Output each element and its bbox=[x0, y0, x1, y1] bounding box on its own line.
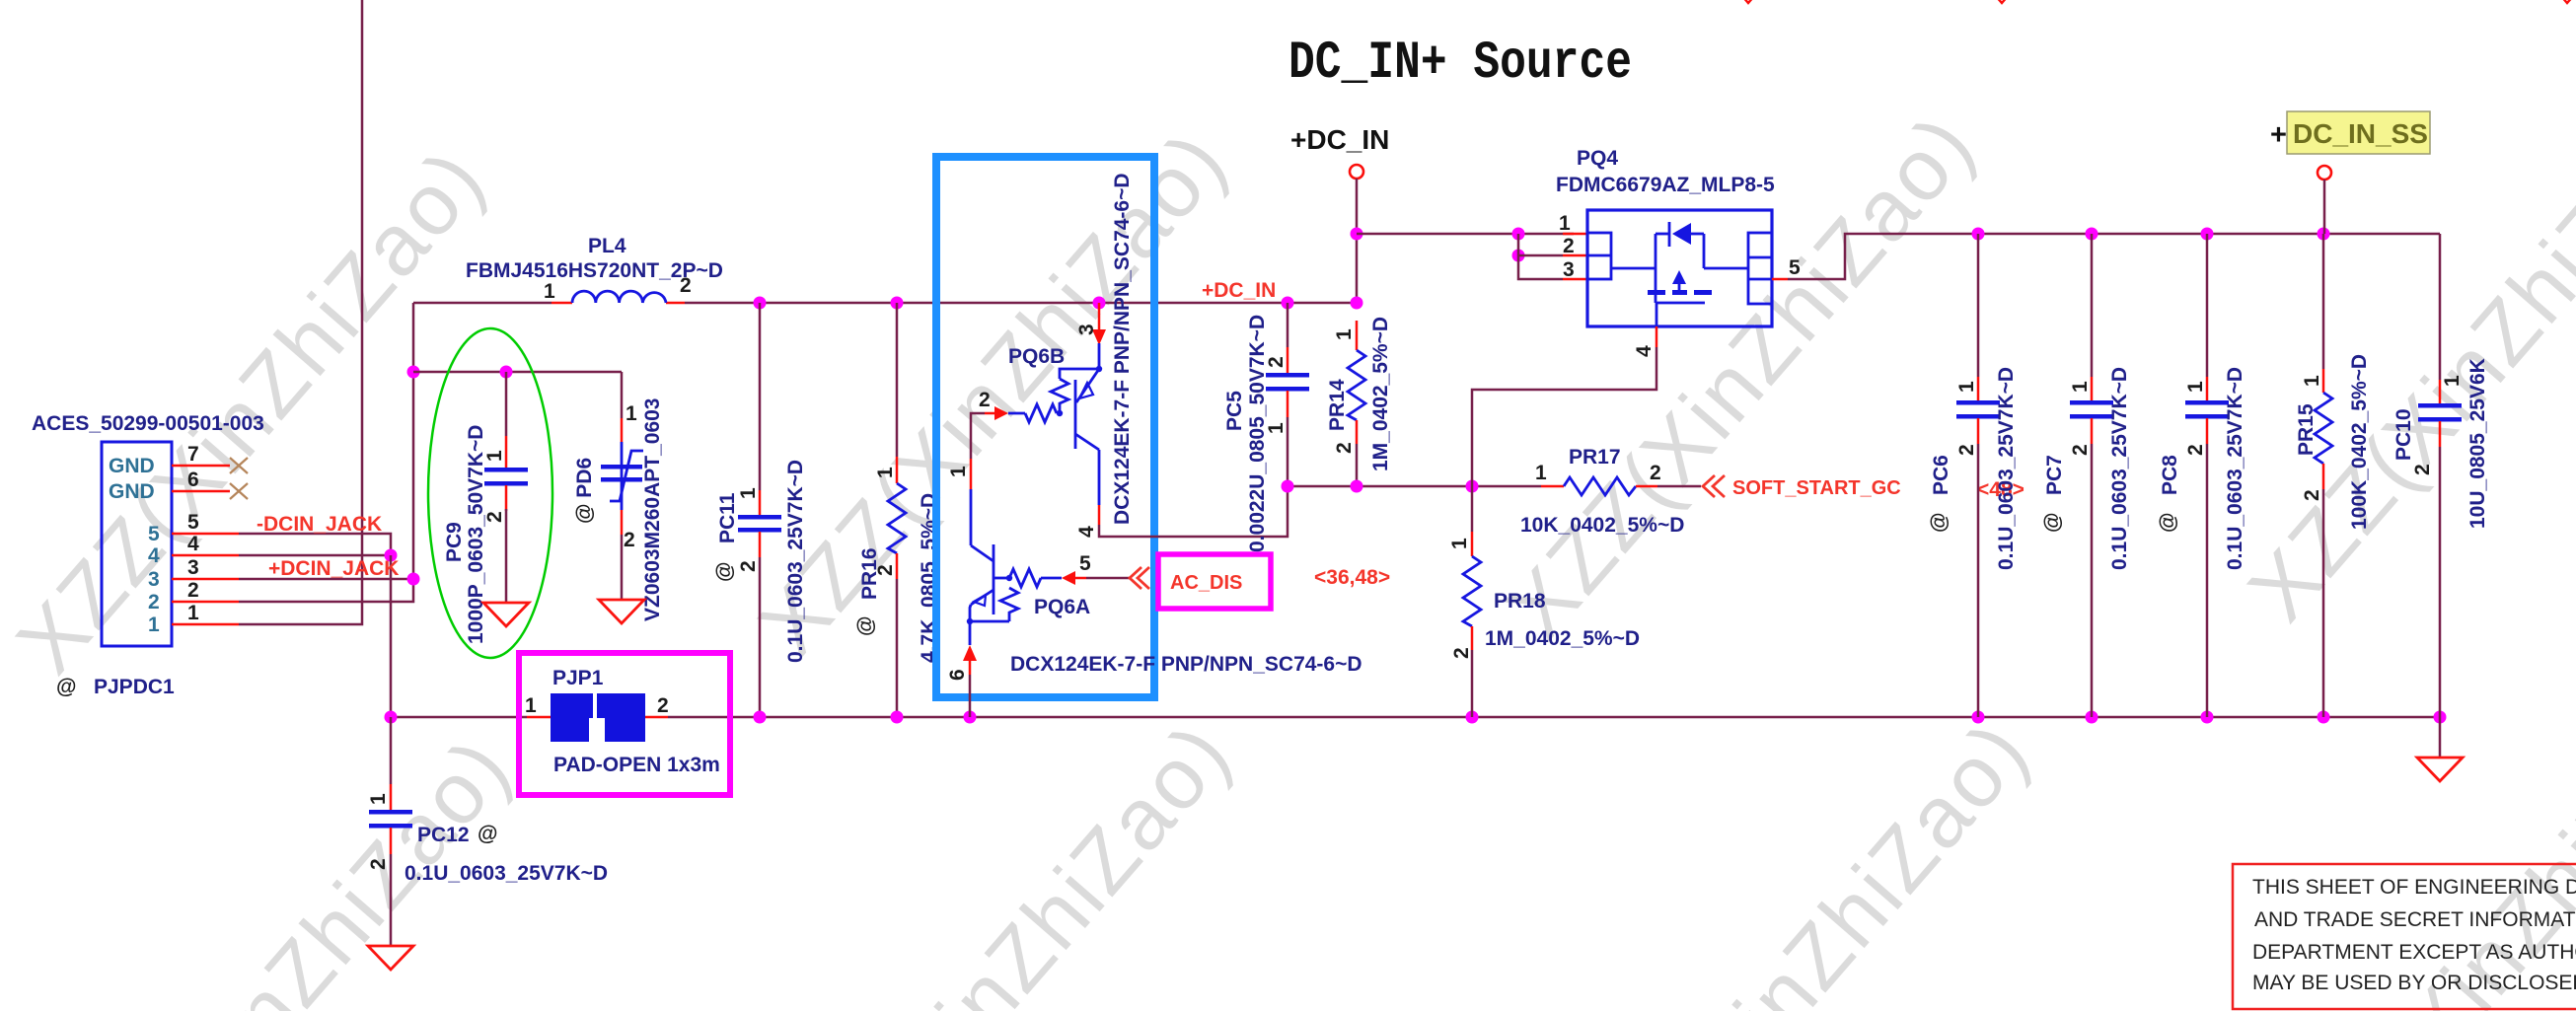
capacitor PC9 bbox=[443, 372, 528, 644]
node bottom rail junctions bbox=[385, 711, 2447, 724]
svg-text:2: 2 bbox=[624, 529, 635, 551]
svg-text:@: @ bbox=[854, 616, 877, 636]
svg-text:2: 2 bbox=[367, 858, 390, 870]
jumper PJP1 bbox=[525, 667, 720, 776]
highlight box magenta AC_DIS bbox=[1158, 554, 1271, 609]
svg-text:2: 2 bbox=[148, 591, 160, 614]
svg-text:ACES_50299-00501-003: ACES_50299-00501-003 bbox=[32, 412, 264, 435]
off-page diamond marker 1 bbox=[1741, 0, 1755, 3]
wire PQ6B pin4 to PC5 bottom bbox=[1099, 486, 1288, 537]
svg-text:2: 2 bbox=[187, 579, 199, 602]
node gate row junctions bbox=[1282, 480, 1479, 493]
pin 7 bbox=[172, 443, 230, 466]
svg-text:0.0022U_0805_50V7K~D: 0.0022U_0805_50V7K~D bbox=[1246, 315, 1269, 552]
svg-text:1: 1 bbox=[947, 466, 970, 477]
resistor PR14 bbox=[1326, 317, 1392, 486]
svg-text:PR14: PR14 bbox=[1326, 379, 1349, 431]
transistor PQ4 bbox=[1556, 147, 1801, 357]
svg-text:1: 1 bbox=[626, 402, 637, 425]
svg-text:4: 4 bbox=[187, 533, 199, 555]
svg-text:@: @ bbox=[2157, 513, 2179, 533]
svg-text:1: 1 bbox=[2441, 375, 2464, 387]
node PR15 top junction bbox=[2318, 228, 2330, 241]
svg-text:100K_0402_5%~D: 100K_0402_5%~D bbox=[2348, 354, 2371, 530]
net label +DC_IN small bbox=[1202, 279, 1276, 302]
svg-text:PR17: PR17 bbox=[1569, 446, 1621, 469]
terminal +DC_IN_SS bbox=[2270, 111, 2430, 234]
svg-text:AC_DIS: AC_DIS bbox=[1170, 572, 1242, 594]
node PL4 left branch junction bbox=[407, 366, 420, 379]
svg-text:GND: GND bbox=[109, 455, 155, 477]
svg-text:PC6: PC6 bbox=[1930, 455, 1952, 495]
wire PQ4 pin4 to gate row bbox=[1472, 347, 1656, 486]
svg-text:+DC_IN: +DC_IN bbox=[1202, 279, 1276, 302]
svg-text:PC10: PC10 bbox=[2392, 408, 2415, 461]
svg-text:6: 6 bbox=[946, 669, 969, 681]
node PQ6B pin3 junction bbox=[1093, 297, 1106, 310]
page ref 36,48 bbox=[1314, 566, 1390, 589]
svg-text:3: 3 bbox=[148, 568, 160, 591]
node +DCIN_JACK junction bbox=[407, 573, 420, 586]
wire top +DC_IN horizontal bbox=[413, 302, 1357, 305]
svg-text:AND TRADE SECRET INFORMATION A: AND TRADE SECRET INFORMATION AND bbox=[2254, 908, 2576, 931]
svg-text:XZZ(XinZhiZao): XZZ(XinZhiZao) bbox=[0, 129, 503, 690]
transistor PQ6B bbox=[947, 303, 1106, 545]
node PQ4 pin1/pin2 junctions bbox=[1512, 228, 1525, 262]
wire pin4 to junction bbox=[239, 554, 391, 557]
title DC_IN+ Source bbox=[1288, 34, 1632, 94]
svg-text:3: 3 bbox=[1563, 258, 1575, 281]
node PC5 top junction bbox=[1282, 297, 1294, 310]
node PR14 top junction bbox=[1351, 297, 1363, 310]
svg-text:2: 2 bbox=[2069, 444, 2092, 456]
wire -DCIN vertical to bottom rail bbox=[390, 555, 393, 717]
wire PC9/PD6 branch bbox=[413, 371, 622, 374]
svg-text:-DCIN_JACK: -DCIN_JACK bbox=[257, 513, 382, 536]
svg-text:0.1U_0603_25V7K~D: 0.1U_0603_25V7K~D bbox=[2224, 367, 2246, 570]
svg-text:FBMJ4516HS720NT_2P~D: FBMJ4516HS720NT_2P~D bbox=[466, 259, 723, 282]
svg-text:1: 1 bbox=[544, 280, 555, 303]
svg-text:@: @ bbox=[713, 562, 736, 582]
svg-text:5: 5 bbox=[148, 523, 160, 545]
svg-text:XZZ(XinZhiZao): XZZ(XinZhiZao) bbox=[1542, 701, 2048, 1011]
wire PQ6A pin6 to rail bbox=[969, 675, 972, 717]
svg-text:@: @ bbox=[56, 676, 76, 698]
port chevron AC_DIS bbox=[1130, 567, 1149, 589]
svg-text:2: 2 bbox=[979, 389, 991, 411]
node +DC_IN rail junction bbox=[1351, 228, 1363, 241]
svg-text:+: + bbox=[2270, 119, 2287, 151]
node PC11 top junction bbox=[754, 297, 767, 310]
net label -DCIN_JACK bbox=[257, 513, 382, 536]
pin 3 bbox=[172, 556, 239, 579]
bottom rail wire bbox=[391, 716, 2440, 719]
svg-text:2: 2 bbox=[2411, 464, 2434, 475]
svg-text:1: 1 bbox=[187, 602, 199, 624]
wire gate row y493 bbox=[1288, 485, 1541, 488]
label DCX124EK horizontal bbox=[1010, 653, 1362, 676]
capacitor PC5 bbox=[1223, 303, 1309, 552]
node PC8 top junction bbox=[2201, 228, 2214, 241]
svg-text:DC_IN_SS: DC_IN_SS bbox=[2293, 118, 2428, 149]
port chevron SOFT_START_GC bbox=[1703, 475, 1725, 497]
svg-text:5: 5 bbox=[1789, 256, 1801, 279]
pin 2 bbox=[172, 579, 239, 602]
svg-text:2: 2 bbox=[737, 560, 760, 572]
svg-text:1000P_0603_50V7K~D: 1000P_0603_50V7K~D bbox=[465, 425, 487, 644]
varistor PD6 bbox=[573, 372, 664, 621]
svg-text:1: 1 bbox=[1448, 538, 1471, 549]
svg-text:PC12: PC12 bbox=[417, 824, 470, 846]
svg-text:10U_0805_25V6K: 10U_0805_25V6K bbox=[2466, 358, 2489, 529]
svg-text:10K_0402_5%~D: 10K_0402_5%~D bbox=[1520, 514, 1684, 537]
resistor PR17 bbox=[1520, 446, 1701, 537]
svg-text:1: 1 bbox=[1535, 462, 1547, 484]
svg-text:PR18: PR18 bbox=[1494, 590, 1546, 613]
svg-text:6: 6 bbox=[187, 469, 199, 491]
net label +DCIN_JACK bbox=[268, 557, 399, 580]
svg-text:PJP1: PJP1 bbox=[552, 667, 604, 689]
svg-text:PQ6B: PQ6B bbox=[1008, 345, 1065, 368]
svg-text:THIS SHEET OF ENGINEERING DRAW: THIS SHEET OF ENGINEERING DRAWING CO bbox=[2252, 876, 2576, 899]
green ellipse highlight bbox=[428, 328, 552, 658]
svg-text:1: 1 bbox=[2184, 381, 2207, 393]
svg-text:PC7: PC7 bbox=[2043, 455, 2066, 495]
svg-text:1: 1 bbox=[148, 614, 160, 636]
wire -DCIN_JACK pin5 bbox=[239, 534, 391, 555]
engineering note box bbox=[2233, 864, 2576, 1009]
svg-text:4: 4 bbox=[1075, 526, 1098, 538]
off-page diamond marker 2 bbox=[1995, 0, 2009, 3]
svg-text:SOFT_START_GC: SOFT_START_GC bbox=[1732, 477, 1901, 499]
svg-text:PR16: PR16 bbox=[858, 547, 881, 600]
wire vertical from top to connector pin 1 bbox=[239, 0, 362, 624]
connector value label bbox=[32, 412, 264, 435]
svg-text:2: 2 bbox=[657, 694, 669, 717]
transistor PQ6A bbox=[946, 544, 1091, 681]
svg-text:1: 1 bbox=[367, 793, 390, 805]
svg-text:1: 1 bbox=[525, 694, 537, 717]
ground PC9 bbox=[483, 603, 529, 626]
svg-text:3: 3 bbox=[1075, 324, 1098, 335]
svg-text:FDMC6679AZ_MLP8-5: FDMC6679AZ_MLP8-5 bbox=[1556, 174, 1775, 196]
node PC9 top junction bbox=[500, 366, 513, 379]
wire +DC_IN rail to PQ4 bbox=[1357, 233, 1574, 236]
svg-text:1: 1 bbox=[2301, 375, 2323, 387]
svg-text:DCX124EK-7-F PNP/NPN_SC74-6~D: DCX124EK-7-F PNP/NPN_SC74-6~D bbox=[1010, 653, 1362, 676]
svg-text:DC_IN+ Source: DC_IN+ Source bbox=[1288, 34, 1632, 94]
svg-text:+DC_IN: +DC_IN bbox=[1290, 124, 1389, 155]
svg-text:3: 3 bbox=[187, 556, 199, 579]
svg-text:PQ4: PQ4 bbox=[1577, 147, 1618, 170]
svg-text:GND: GND bbox=[109, 480, 155, 503]
svg-text:XZZ(XinZhiZao): XZZ(XinZhiZao) bbox=[744, 703, 1250, 1011]
resistor PR16 bbox=[854, 303, 940, 717]
svg-text:4: 4 bbox=[1633, 345, 1656, 357]
svg-text:1M_0402_5%~D: 1M_0402_5%~D bbox=[1369, 317, 1392, 471]
node PC6 top junction bbox=[1972, 228, 1985, 241]
svg-text:1: 1 bbox=[737, 487, 760, 499]
connector refdes bbox=[56, 676, 175, 698]
svg-text:0.1U_0603_25V7K~D: 0.1U_0603_25V7K~D bbox=[784, 460, 807, 663]
capacitor PC11 bbox=[713, 303, 807, 717]
svg-text:PC9: PC9 bbox=[443, 522, 466, 562]
svg-text:2: 2 bbox=[2301, 489, 2323, 501]
svg-text:DCX124EK-7-F PNP/NPN_SC74-6~D: DCX124EK-7-F PNP/NPN_SC74-6~D bbox=[1111, 173, 1134, 525]
resistor PR15 bbox=[2295, 234, 2371, 717]
ground PC12 bbox=[368, 946, 413, 970]
svg-text:2: 2 bbox=[2184, 444, 2207, 456]
svg-text:PC11: PC11 bbox=[716, 492, 739, 543]
svg-text:1: 1 bbox=[874, 467, 897, 478]
svg-text:PAD-OPEN 1x3m: PAD-OPEN 1x3m bbox=[553, 754, 720, 776]
svg-text:5: 5 bbox=[1079, 552, 1091, 575]
node -DCIN_JACK junction bbox=[385, 549, 398, 562]
ground bottom right bbox=[2417, 717, 2463, 781]
svg-text:2: 2 bbox=[1450, 647, 1473, 659]
svg-text:PC5: PC5 bbox=[1223, 391, 1246, 431]
svg-text:PC8: PC8 bbox=[2159, 455, 2181, 495]
svg-text:PL4: PL4 bbox=[588, 235, 626, 257]
wire PQ4 pin bus bbox=[1518, 234, 1563, 279]
node PC7 top junction bbox=[2086, 228, 2098, 241]
off-page diamond marker 3 bbox=[2560, 0, 2574, 3]
svg-text:2: 2 bbox=[1650, 462, 1661, 484]
capacitor PC6 bbox=[1928, 234, 2018, 717]
svg-text:@: @ bbox=[1928, 513, 1950, 533]
capacitor PC12 bbox=[367, 717, 608, 946]
capacitor PC7 bbox=[2041, 234, 2131, 717]
capacitor PC10 bbox=[2392, 234, 2489, 717]
svg-text:1: 1 bbox=[2069, 381, 2092, 393]
pin 1 bbox=[172, 602, 239, 624]
svg-text:0.1U_0603_25V7K~D: 0.1U_0603_25V7K~D bbox=[1995, 367, 2018, 570]
svg-text:PJPDC1: PJPDC1 bbox=[94, 676, 175, 698]
svg-text:7: 7 bbox=[187, 443, 199, 466]
svg-text:2: 2 bbox=[1563, 235, 1575, 257]
pin 4 bbox=[172, 533, 239, 555]
svg-text:@: @ bbox=[2041, 513, 2064, 533]
connector PJPDC1 bbox=[102, 442, 172, 646]
wire AC_DIS to PQ6A pin5 bbox=[1086, 577, 1130, 580]
svg-text:5: 5 bbox=[187, 511, 199, 534]
capacitor PC8 bbox=[2157, 234, 2246, 717]
resistor PR18 bbox=[1448, 486, 1640, 717]
svg-text:DEPARTMENT EXCEPT AS AUTHORIZE: DEPARTMENT EXCEPT AS AUTHORIZED bbox=[2252, 941, 2576, 964]
node PR16 top junction bbox=[891, 297, 904, 310]
terminal +DC_IN bbox=[1290, 124, 1389, 303]
wire pin2 to +DCIN vertical bbox=[239, 303, 413, 602]
jumper PJP1 magenta box bbox=[519, 653, 730, 795]
net label SOFT_START_GC bbox=[1732, 477, 1901, 499]
inductor PL4 bbox=[466, 235, 723, 303]
svg-text:1M_0402_5%~D: 1M_0402_5%~D bbox=[1485, 627, 1640, 650]
svg-text:1: 1 bbox=[1955, 381, 1978, 393]
svg-text:1: 1 bbox=[1559, 212, 1571, 235]
svg-text:4: 4 bbox=[148, 544, 160, 567]
page ref 48 bbox=[1977, 478, 2024, 501]
svg-text:0.1U_0603_25V7K~D: 0.1U_0603_25V7K~D bbox=[2108, 367, 2131, 570]
svg-text:<36,48>: <36,48> bbox=[1314, 566, 1390, 589]
svg-text:@ PD6: @ PD6 bbox=[573, 458, 596, 524]
net label AC_DIS bbox=[1170, 572, 1242, 594]
svg-text:XZZ(XinZhiZao): XZZ(XinZhiZao) bbox=[2230, 77, 2576, 638]
no-connect X pin 6 bbox=[230, 483, 248, 499]
svg-text:0.1U_0603_25V7K~D: 0.1U_0603_25V7K~D bbox=[405, 862, 608, 885]
svg-text:2: 2 bbox=[1333, 442, 1356, 454]
no-connect X pin 7 bbox=[230, 458, 248, 473]
svg-text:PR15: PR15 bbox=[2295, 403, 2318, 456]
svg-text:MAY BE USED BY OR DISCLOSED TO: MAY BE USED BY OR DISCLOSED TO bbox=[2252, 972, 2576, 994]
pin 6 bbox=[172, 469, 230, 491]
wire PQ4 pin5 to output rail bbox=[1788, 234, 2440, 279]
svg-text:2: 2 bbox=[1955, 444, 1978, 456]
wire pin3 +DCIN_JACK bbox=[239, 578, 413, 581]
svg-text:@: @ bbox=[478, 823, 497, 845]
svg-text:1: 1 bbox=[1333, 328, 1356, 340]
ground PD6 bbox=[599, 600, 644, 623]
highlight box blue PQ6 bbox=[936, 157, 1154, 697]
pin 5 bbox=[172, 511, 239, 534]
svg-text:VZ0603M260APT_0603: VZ0603M260APT_0603 bbox=[641, 398, 664, 621]
svg-text:PQ6A: PQ6A bbox=[1034, 596, 1090, 618]
label DCX124EK vertical bbox=[1111, 173, 1134, 525]
svg-text:+DCIN_JACK: +DCIN_JACK bbox=[268, 557, 399, 580]
